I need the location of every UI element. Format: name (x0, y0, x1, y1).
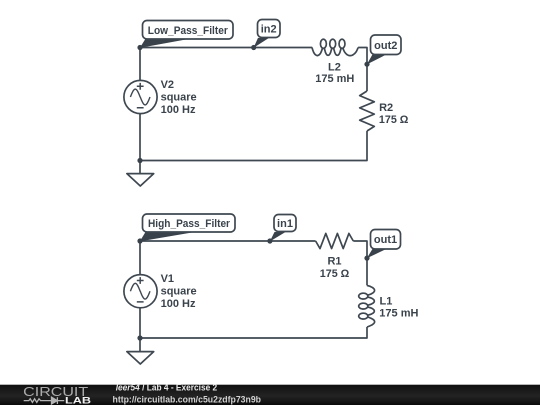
wire V1 minus to ground node (139, 308, 141, 338)
svg-text:out2: out2 (374, 40, 397, 52)
footer bar (0, 385, 540, 405)
label box Low_Pass_Filter (143, 21, 234, 40)
svg-text:175 Ω: 175 Ω (320, 268, 350, 280)
inductor L1 (359, 285, 375, 327)
svg-text:175 Ω: 175 Ω (379, 114, 409, 126)
svg-text:100 Hz: 100 Hz (161, 298, 196, 310)
svg-text:in1: in1 (277, 218, 293, 230)
svg-text:V1: V1 (161, 273, 174, 285)
svg-text:175 mH: 175 mH (315, 73, 354, 85)
wire V1 plus up (139, 241, 141, 275)
ground GND bottom (127, 338, 154, 364)
svg-text:LAB: LAB (65, 395, 91, 405)
label box out2 (371, 35, 402, 55)
svg-text:L1: L1 (380, 296, 393, 308)
wire V2 plus up (139, 48, 141, 81)
svg-text:square: square (161, 91, 197, 103)
svg-text:Low_Pass_Filter: Low_Pass_Filter (148, 25, 229, 37)
svg-text:R2: R2 (379, 102, 393, 114)
node dot in2 (251, 45, 256, 50)
svg-text:R1: R1 (327, 256, 341, 268)
label box in2 (258, 20, 281, 38)
svg-text:V2: V2 (161, 79, 174, 91)
wire L1 bottom to ground net (140, 327, 367, 338)
voltage source V2 (124, 80, 157, 113)
node dot V2 top (137, 45, 142, 50)
svg-text:http://circuitlab.com/c5u2zdfp: http://circuitlab.com/c5u2zdfp73n9b (113, 394, 262, 404)
label box in1 (274, 215, 296, 232)
logo resistor-diode squiggle (24, 397, 64, 404)
wire L2 to corner and down to out2 node (358, 48, 367, 92)
node anchor High_Pass_Filter wedge (140, 232, 195, 241)
node out1 wedge (367, 249, 387, 258)
svg-text:L2: L2 (328, 61, 341, 73)
voltage source V1 (124, 275, 157, 308)
node dot ground junction bottom (137, 335, 142, 340)
node out2 wedge (367, 54, 387, 64)
wire R2 bottom to ground net (140, 131, 367, 161)
svg-text:High_Pass_Filter: High_Pass_Filter (148, 218, 231, 230)
resistor R1 (316, 233, 354, 248)
node dot out1 (364, 256, 369, 261)
ground GND top (127, 161, 154, 187)
svg-text:100 Hz: 100 Hz (161, 104, 196, 116)
wire V2 minus to ground node (139, 114, 141, 161)
wire R1 to corner down to out1 node and L1 (353, 241, 367, 285)
node anchor Low_Pass_Filter wedge (140, 39, 190, 48)
label box out1 (371, 230, 401, 250)
node dot ground junction top (137, 158, 142, 163)
svg-text:square: square (161, 286, 197, 298)
inductor L2 (312, 39, 358, 55)
label box High_Pass_Filter (143, 214, 236, 232)
resistor R2 (360, 91, 375, 131)
node in1 wedge (270, 232, 286, 242)
node in2 wedge (254, 38, 269, 48)
wire top net in1 (V1 plus to R1) (140, 240, 316, 242)
svg-text:out1: out1 (374, 234, 397, 246)
node dot in1 (267, 238, 272, 243)
node dot V1 top (137, 238, 142, 243)
node dot out2 (364, 62, 369, 67)
svg-text:in2: in2 (261, 24, 277, 36)
svg-text:leer54 / Lab 4 - Exercise 2: leer54 / Lab 4 - Exercise 2 (116, 383, 218, 393)
svg-text:175 mH: 175 mH (379, 308, 418, 320)
wire top net in2 (V2 plus to L2) (140, 47, 312, 49)
